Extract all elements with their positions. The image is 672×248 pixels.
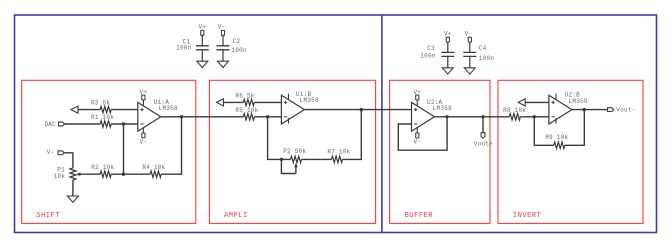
wire Vout+ tap down xyxy=(482,117,484,133)
ground (C1) xyxy=(197,61,208,67)
arrow port (U2:B non-inverting) xyxy=(518,99,525,106)
svg-text:100n: 100n xyxy=(176,44,192,51)
ground (C2) xyxy=(218,61,229,67)
svg-text:R3 5k: R3 5k xyxy=(91,99,110,106)
node R2/R4 junction xyxy=(122,173,125,176)
op-amp U2:B xyxy=(549,92,588,124)
box BUFFER xyxy=(390,80,490,223)
wire junction down to P2 line xyxy=(268,117,291,160)
potentiometer P1 xyxy=(54,166,100,180)
supply V- (U2:A) xyxy=(413,128,421,146)
supply V+ (U2:A) xyxy=(413,89,421,106)
port V- (P1 top) xyxy=(47,149,64,156)
wire R3 to U1:A non-inverting input xyxy=(111,109,138,111)
svg-text:100n: 100n xyxy=(479,55,495,62)
port Vout+ xyxy=(474,133,493,148)
resistor R5 xyxy=(235,107,258,120)
op-amp U2:A xyxy=(412,99,453,131)
arrow port (R3 left) xyxy=(71,106,78,113)
capacitor C4 xyxy=(463,42,494,68)
wire U1:A output to R5 xyxy=(161,116,244,118)
port Vout- xyxy=(608,107,636,114)
svg-text:C3: C3 xyxy=(427,45,435,52)
node AMPLI output/R7 feedback xyxy=(360,108,363,111)
svg-text:SHIFT: SHIFT xyxy=(36,212,60,220)
ground (P1) xyxy=(67,196,78,202)
supply V- (C4) xyxy=(465,30,473,42)
wire junction down to R9 xyxy=(534,117,554,146)
box INVERT xyxy=(498,80,643,223)
svg-text:V-: V- xyxy=(413,139,421,146)
svg-text:R6 5k: R6 5k xyxy=(235,93,254,100)
wire DAC to R1 xyxy=(65,123,101,125)
resistor R9 xyxy=(545,134,568,149)
svg-text:V-: V- xyxy=(218,24,226,31)
svg-text:R9 10k: R9 10k xyxy=(545,134,568,141)
resistor R3 xyxy=(91,99,111,112)
svg-text:LM358: LM358 xyxy=(300,97,319,104)
wire P2 to R7 xyxy=(302,158,332,160)
ground (C4) xyxy=(464,68,475,74)
wire U1:B output to U2:A xyxy=(304,109,411,111)
wire U2:A output to R8 xyxy=(435,116,510,118)
arrow port (R6 left) xyxy=(217,99,224,106)
node R5/feedback junction xyxy=(266,115,269,118)
wire arrow to R3 xyxy=(78,109,100,111)
wire R9 up to output xyxy=(565,110,585,146)
svg-text:R7 10k: R7 10k xyxy=(327,148,350,155)
node U2:B output/R9 xyxy=(583,108,586,111)
wire R5 to U1:B inverting input xyxy=(254,116,281,118)
resistor R7 xyxy=(327,148,350,162)
svg-text:R2 10k: R2 10k xyxy=(91,164,114,171)
svg-text:AMPLI: AMPLI xyxy=(224,212,248,220)
potentiometer P2 xyxy=(283,148,306,174)
svg-text:C2: C2 xyxy=(233,38,241,45)
svg-text:100n: 100n xyxy=(231,47,247,54)
resistor R6 xyxy=(235,93,254,106)
svg-text:Vout+: Vout+ xyxy=(474,140,493,147)
wire R4 up to output node xyxy=(161,117,181,174)
svg-text:LM358: LM358 xyxy=(159,105,178,112)
wire R1 to U1:A inverting input xyxy=(111,123,138,125)
svg-text:R1 10k: R1 10k xyxy=(91,114,114,121)
wire arrow to R6 xyxy=(224,101,244,103)
wire P1 bottom to ground xyxy=(72,180,74,196)
supply V+ (C1) xyxy=(198,24,206,36)
svg-text:LM358: LM358 xyxy=(433,105,452,112)
svg-text:V-: V- xyxy=(140,139,148,146)
box SHIFT xyxy=(22,80,196,223)
node R8/R9 junction xyxy=(533,115,536,118)
supply V+ (C3) xyxy=(444,30,452,42)
svg-text:INVERT: INVERT xyxy=(513,212,542,220)
node P2 loop junction xyxy=(280,158,283,161)
capacitor C3 xyxy=(420,42,454,68)
resistor R8 xyxy=(503,107,526,120)
node U2:A output/feedback xyxy=(445,115,448,118)
svg-text:100n: 100n xyxy=(420,52,436,59)
capacitor C1 xyxy=(176,35,209,61)
wire U2:A feedback loop xyxy=(398,117,447,150)
svg-text:V+: V+ xyxy=(413,89,421,96)
wire R2 to R4 xyxy=(111,173,150,175)
wire V- port to P1 xyxy=(64,153,73,168)
svg-text:R8 10k: R8 10k xyxy=(503,107,526,114)
node Vout+ tap xyxy=(481,115,484,118)
svg-text:V+: V+ xyxy=(140,89,148,96)
wire P2 wiper loop xyxy=(281,159,296,173)
wire U2:B output to Vout- port xyxy=(572,109,608,111)
svg-text:V+: V+ xyxy=(198,24,206,31)
resistor R1 xyxy=(91,114,114,127)
resistor R2 xyxy=(91,164,114,177)
svg-text:Vout-: Vout- xyxy=(616,107,635,114)
capacitor C2 xyxy=(217,35,247,61)
node R1/R2 junction xyxy=(122,122,125,125)
svg-text:R4 10k: R4 10k xyxy=(142,164,165,171)
resistor R4 xyxy=(142,164,165,177)
box AMPLI xyxy=(209,80,375,223)
wire R6 to U1:B non-inverting input xyxy=(254,101,281,103)
svg-text:R5 10k: R5 10k xyxy=(235,107,258,114)
supply V+ (U1:A) xyxy=(140,89,148,106)
svg-text:LM358: LM358 xyxy=(569,98,588,105)
svg-text:DAC: DAC xyxy=(44,121,56,128)
svg-text:V+: V+ xyxy=(444,30,452,37)
frame divider xyxy=(381,15,383,233)
svg-text:BUFFER: BUFFER xyxy=(405,212,434,220)
supply V- (U1:A) xyxy=(140,128,148,146)
svg-text:10k: 10k xyxy=(54,173,66,180)
op-amp U1:A xyxy=(138,99,178,131)
op-amp U1:B xyxy=(281,91,319,124)
svg-text:P2 50k: P2 50k xyxy=(283,148,306,155)
svg-text:C4: C4 xyxy=(479,45,487,52)
port DAC xyxy=(44,121,64,128)
node U1:A output/feedback xyxy=(180,115,183,118)
ground (C3) xyxy=(442,68,453,74)
svg-text:V-: V- xyxy=(47,149,55,156)
wire arrow to U2:B non-inverting input xyxy=(525,101,549,103)
wire R8 to U2:B inverting input xyxy=(520,116,549,118)
wire junction down to R2 line xyxy=(123,124,125,174)
svg-text:V-: V- xyxy=(465,30,473,37)
wire R7 up to output line xyxy=(343,110,362,160)
supply V- (C2) xyxy=(218,24,226,36)
